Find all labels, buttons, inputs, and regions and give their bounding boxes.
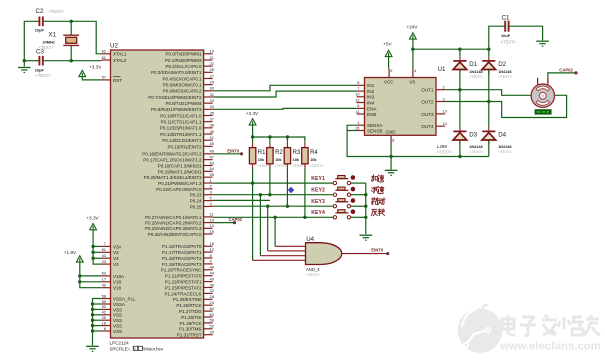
watermark elecfans logo bbox=[458, 305, 503, 353]
wire KEY1 to ground column bbox=[351, 182, 366, 184]
svg-text:R4: R4 bbox=[310, 150, 318, 156]
wire KEY3 row P0.25 bbox=[213, 205, 333, 207]
junctions VSS chain bbox=[91, 302, 94, 305]
junction crystal bottom bbox=[70, 59, 73, 62]
ground for L298 bbox=[385, 169, 398, 171]
svg-text:P0.3/SDA/MAT0.0/EINT1: P0.3/SDA/MAT0.0/EINT1 bbox=[151, 70, 202, 75]
junction R3 KEY3 bbox=[286, 205, 289, 208]
svg-text:P1.21/PIPESTAT0: P1.21/PIPESTAT0 bbox=[165, 274, 202, 279]
power +5V at VCC bbox=[385, 50, 392, 56]
wire R4 vertical bbox=[304, 169, 306, 218]
driver U1 top pins bbox=[384, 69, 416, 85]
svg-text:VSSA: VSSA bbox=[113, 302, 125, 307]
motor active label bbox=[535, 109, 552, 114]
label jiansu (decelerate) bbox=[371, 186, 384, 193]
resistor R4 10k bbox=[302, 137, 325, 169]
svg-text:+3.3V: +3.3V bbox=[86, 216, 99, 221]
svg-text:31: 31 bbox=[210, 92, 214, 97]
svg-text:17: 17 bbox=[102, 277, 106, 282]
wire KEY2 drop to AND input 3 bbox=[259, 195, 261, 256]
power +24V at VS bbox=[410, 33, 417, 39]
svg-text:P0.13/DTR1/MAT1.1: P0.13/DTR1/MAT1.1 bbox=[160, 132, 202, 137]
svg-text:<TEXT>: <TEXT> bbox=[501, 40, 517, 45]
wire OUT2 to motor right bbox=[445, 95, 566, 117]
svg-text:9: 9 bbox=[390, 69, 392, 73]
label zhidong (brake) bbox=[372, 198, 385, 205]
wire KEY3 to ground column bbox=[351, 205, 366, 207]
svg-text:32: 32 bbox=[210, 288, 214, 293]
svg-text:39: 39 bbox=[210, 129, 214, 134]
svg-text:P0.24: P0.24 bbox=[190, 199, 202, 204]
svg-text:P0.4/SCK0/CAP0.1: P0.4/SCK0/CAP0.1 bbox=[162, 76, 202, 81]
svg-text:<TEXT>: <TEXT> bbox=[306, 273, 321, 277]
svg-text:2: 2 bbox=[443, 85, 445, 90]
wire SENSA SENSB tie bbox=[347, 125, 357, 130]
driver U1 left pins bbox=[355, 80, 383, 133]
svg-text:VS: VS bbox=[409, 79, 415, 84]
svg-text:P1.27/TDO: P1.27/TDO bbox=[179, 309, 202, 314]
resistor R3 10k bbox=[284, 137, 307, 169]
svg-text:AND_4: AND_4 bbox=[306, 267, 320, 272]
wire VSS chain bbox=[93, 299, 102, 346]
power +3.3V at V3 rail bbox=[90, 224, 97, 230]
driver U1 L298 body bbox=[365, 78, 437, 136]
ground for C2 C3 bbox=[18, 67, 31, 69]
wire rail to D1 bbox=[459, 49, 461, 56]
svg-text:59: 59 bbox=[102, 299, 106, 304]
mcu U2 left pins bbox=[102, 49, 136, 334]
ground for VSS bbox=[86, 345, 99, 347]
label fanzhuan (reverse) bbox=[371, 209, 384, 216]
svg-text:P0.21/PWM5/CAP1.3: P0.21/PWM5/CAP1.3 bbox=[158, 181, 202, 186]
svg-text:VSS: VSS bbox=[113, 318, 122, 323]
wire resistor rail bbox=[253, 125, 305, 140]
svg-text:7: 7 bbox=[104, 241, 106, 246]
label jiasu (accelerate) bbox=[371, 175, 384, 182]
svg-text:V18: V18 bbox=[113, 286, 122, 291]
junction R2 KEY2 bbox=[268, 193, 271, 196]
svg-text:CAP02: CAP02 bbox=[229, 217, 243, 222]
svg-text:61: 61 bbox=[102, 55, 106, 60]
wire V3 rail bbox=[93, 230, 102, 264]
svg-text:P0.5/MISO/MAT0.1: P0.5/MISO/MAT0.1 bbox=[163, 83, 202, 88]
svg-text:62: 62 bbox=[102, 49, 106, 54]
push button KEY4 bbox=[333, 209, 355, 219]
svg-text:V3: V3 bbox=[113, 250, 119, 255]
wire P0.28 CAP02 stub bbox=[213, 222, 235, 224]
svg-text:VSS: VSS bbox=[113, 313, 122, 318]
wire GND pin down bbox=[390, 144, 392, 169]
svg-text:IN4: IN4 bbox=[367, 100, 375, 105]
junction crystal top bbox=[70, 20, 73, 23]
svg-text:49: 49 bbox=[102, 283, 106, 288]
svg-text:27: 27 bbox=[210, 73, 214, 78]
svg-text:P0.19/MAT1.2/MOSI1: P0.19/MAT1.2/MOSI1 bbox=[158, 169, 202, 174]
svg-text:RST: RST bbox=[113, 78, 122, 83]
diode D2 1N4148 bbox=[482, 56, 513, 78]
svg-text:SRCFILE=..\1: SRCFILE=..\1 bbox=[110, 346, 137, 351]
power +1.8V at V18 rail bbox=[76, 256, 83, 262]
svg-text:P0.11/CTS1/CAP1.1: P0.11/CTS1/CAP1.1 bbox=[161, 120, 202, 125]
svg-text:8: 8 bbox=[392, 139, 394, 143]
svg-text:P0.10/RTS1/CAP1.0: P0.10/RTS1/CAP1.0 bbox=[160, 113, 202, 118]
diode D1 1N4148 bbox=[453, 56, 484, 78]
wire KEY4 to ground column bbox=[351, 216, 366, 218]
junction C3-ground vertical bbox=[23, 59, 26, 62]
svg-text:<TEXT>: <TEXT> bbox=[498, 150, 513, 154]
svg-text:P0.18/CAP1.3/MISO1: P0.18/CAP1.3/MISO1 bbox=[158, 163, 202, 168]
svg-text:10uF: 10uF bbox=[501, 33, 511, 38]
svg-text:V3: V3 bbox=[113, 262, 119, 267]
wire OUT1 to motor left bbox=[445, 90, 531, 96]
junction rail D1 bbox=[458, 48, 461, 51]
diode D4 1N4148 bbox=[482, 127, 513, 154]
svg-text:www.elecfans.com: www.elecfans.com bbox=[499, 341, 601, 353]
svg-text:P0.2/SCL/CAP0.0: P0.2/SCL/CAP0.0 bbox=[165, 64, 202, 69]
svg-text:P0.17/CAP1.2/SCK1/MAT1.2: P0.17/CAP1.2/SCK1/MAT1.2 bbox=[143, 158, 202, 163]
wire C1 right to ground bbox=[509, 26, 543, 40]
watermark chinese characters bbox=[502, 315, 600, 336]
svg-text:21: 21 bbox=[210, 55, 214, 60]
resistor R2 10k bbox=[267, 137, 290, 169]
svg-text:P0.29/AIN2/CAP0.3/MAT0.3: P0.29/AIN2/CAP0.3/MAT0.3 bbox=[145, 226, 202, 231]
svg-text:P0.0/TxD0/PWM1: P0.0/TxD0/PWM1 bbox=[165, 52, 202, 57]
svg-text:U4: U4 bbox=[306, 236, 314, 243]
wire SENS to bottom rail bbox=[347, 131, 489, 157]
wire +24V rail bbox=[413, 39, 489, 49]
svg-text:X1: X1 bbox=[49, 32, 57, 39]
svg-text:10k: 10k bbox=[258, 157, 265, 162]
svg-text:57: 57 bbox=[102, 75, 106, 80]
svg-text:P0.6/MOSI/CAP0.2: P0.6/MOSI/CAP0.2 bbox=[163, 89, 202, 94]
junctions resistor rail bbox=[251, 135, 254, 138]
svg-text:P0.22/CAP0.0/MAT0.0: P0.22/CAP0.0/MAT0.0 bbox=[156, 187, 202, 192]
svg-text:1N4148: 1N4148 bbox=[469, 70, 482, 74]
svg-text:V3A: V3A bbox=[113, 244, 122, 249]
driver U1 right pins bbox=[421, 85, 447, 130]
svg-text:P0.30/AIN3/EINT3/CAP0.0: P0.30/AIN3/EINT3/CAP0.0 bbox=[148, 232, 202, 237]
svg-text:<TEXT>: <TEXT> bbox=[310, 164, 325, 168]
svg-text:+24V: +24V bbox=[406, 25, 418, 30]
node CAP02 right bbox=[574, 71, 577, 74]
junctions key ground column bbox=[364, 193, 367, 196]
svg-text:D2: D2 bbox=[498, 61, 506, 68]
svg-text:<TEXT>: <TEXT> bbox=[469, 75, 484, 79]
svg-text:10pF: 10pF bbox=[35, 68, 45, 73]
svg-text:<TEXT>: <TEXT> bbox=[49, 9, 65, 14]
svg-text:KEY4: KEY4 bbox=[311, 210, 325, 216]
and gate U4 AND_4 bbox=[306, 236, 342, 277]
junction rail D2 C1 bbox=[487, 48, 490, 51]
svg-text:V18: V18 bbox=[113, 280, 122, 285]
svg-text:12: 12 bbox=[355, 97, 359, 102]
diode D3 1N4148 bbox=[453, 127, 484, 154]
svg-text:+1.8V: +1.8V bbox=[64, 250, 77, 255]
svg-text:KEY1: KEY1 bbox=[311, 176, 325, 182]
wire V18 rail bbox=[80, 262, 102, 287]
wire C2 left to ground bbox=[24, 21, 38, 66]
svg-text:<TEXT>: <TEXT> bbox=[36, 73, 52, 78]
svg-text:24MHz: 24MHz bbox=[43, 39, 55, 44]
svg-text:P1.20/TRACESYNC: P1.20/TRACESYNC bbox=[161, 268, 203, 273]
wire C2 top rail to XTAL1 bbox=[44, 21, 102, 54]
svg-text:LPC2124: LPC2124 bbox=[110, 341, 130, 346]
junction bottom rail GND bbox=[389, 155, 392, 158]
svg-text:CAP02: CAP02 bbox=[559, 67, 573, 72]
svg-text:P1.19/TRACEPKT3: P1.19/TRACEPKT3 bbox=[162, 262, 202, 267]
junction OUT2 D2 bbox=[487, 100, 490, 103]
svg-text:P1.18/TRACEPKT2: P1.18/TRACEPKT2 bbox=[162, 256, 202, 261]
svg-text:+3.3V: +3.3V bbox=[246, 111, 259, 116]
svg-text:1: 1 bbox=[210, 178, 212, 183]
svg-text:VSS: VSS bbox=[113, 324, 122, 329]
svg-text:P0.1/RxD0/PWM3: P0.1/RxD0/PWM3 bbox=[165, 58, 202, 63]
svg-text:ENB: ENB bbox=[367, 112, 376, 117]
node EINT0 left bbox=[240, 152, 243, 155]
wire U4 output EINT0 bbox=[342, 253, 388, 255]
svg-text:P0.15/RI1/EINT2: P0.15/RI1/EINT2 bbox=[167, 144, 202, 149]
svg-text:R3: R3 bbox=[293, 150, 301, 156]
wire KEY4 row P0.27 bbox=[213, 216, 333, 218]
wire R2 vertical bbox=[269, 169, 271, 195]
junction bottom rail D3 bbox=[458, 155, 461, 158]
svg-text:P1.23/PIPESTAT2: P1.23/PIPESTAT2 bbox=[165, 285, 202, 290]
svg-text:P0.27/AIN0/CAP0.1/MAT0.1: P0.27/AIN0/CAP0.1/MAT0.1 bbox=[145, 215, 202, 220]
junction R4 KEY4 bbox=[303, 216, 306, 219]
wire D4 bottom bbox=[488, 140, 490, 157]
wire KEY2 row P0.23 bbox=[213, 194, 333, 196]
capacitor C1 10uF bbox=[501, 15, 517, 45]
wire P0.16 EINT0 stub bbox=[213, 153, 242, 155]
svg-text:P0.12/DSR1/MAT1.0: P0.12/DSR1/MAT1.0 bbox=[160, 126, 202, 131]
svg-text:V3: V3 bbox=[113, 256, 119, 261]
wire crystal vertical bottom bbox=[70, 45, 72, 60]
origin marker blue diamond bbox=[288, 187, 294, 194]
wire C1 left bbox=[489, 26, 505, 49]
wire KEY4 drop to AND input 1 bbox=[274, 217, 276, 246]
node EINT0 output bbox=[386, 252, 389, 255]
wire motor terminal to CAP02 bbox=[548, 73, 576, 78]
svg-text:VSS: VSS bbox=[113, 329, 122, 334]
svg-text:10k: 10k bbox=[310, 157, 317, 162]
mcu U2 LPC2124 body bbox=[111, 50, 204, 338]
svg-text:1N4148: 1N4148 bbox=[498, 145, 511, 149]
svg-text:P0.20/MAT1.3/SSEL1/EINT3: P0.20/MAT1.3/SSEL1/EINT3 bbox=[144, 175, 202, 180]
svg-text:52: 52 bbox=[210, 324, 214, 329]
svg-text:SENSB: SENSB bbox=[367, 128, 383, 133]
svg-text:R1: R1 bbox=[258, 150, 266, 156]
svg-text:KEY2: KEY2 bbox=[311, 188, 325, 194]
wire D2 to D4 bbox=[488, 70, 490, 127]
svg-text:P1.26/RTCK: P1.26/RTCK bbox=[176, 303, 201, 308]
svg-text:37: 37 bbox=[210, 116, 214, 121]
svg-text:D3: D3 bbox=[469, 132, 477, 139]
svg-text:<TEXT>: <TEXT> bbox=[469, 150, 484, 154]
svg-text:U1: U1 bbox=[438, 66, 446, 73]
svg-text:V18A: V18A bbox=[113, 274, 124, 279]
resistor R1 10k bbox=[249, 137, 272, 169]
svg-text:IN2: IN2 bbox=[367, 89, 375, 94]
wire R1 vertical to AND input 4 bbox=[252, 169, 254, 261]
svg-text:9: 9 bbox=[210, 201, 212, 206]
wire R3 vertical bbox=[286, 169, 288, 207]
push button KEY2 bbox=[333, 187, 355, 197]
svg-text:11: 11 bbox=[355, 109, 359, 114]
svg-text:OUT1: OUT1 bbox=[421, 88, 434, 93]
svg-text:U2: U2 bbox=[110, 43, 118, 50]
push button KEY3 bbox=[333, 198, 355, 208]
junctions V18 rail bbox=[78, 274, 81, 277]
wire KEY1 row P0.21 bbox=[213, 182, 333, 184]
svg-text:P1.22/PIPESTAT1: P1.22/PIPESTAT1 bbox=[165, 280, 202, 285]
svg-text:11: 11 bbox=[210, 212, 214, 217]
svg-text:+5V: +5V bbox=[383, 41, 392, 46]
svg-text:29: 29 bbox=[210, 79, 214, 84]
wire +5V to VCC bbox=[388, 57, 390, 69]
svg-text:OUT2: OUT2 bbox=[421, 99, 434, 104]
svg-text:P1.25/EXTIN0: P1.25/EXTIN0 bbox=[173, 297, 202, 302]
power +3.3V at resistor rail bbox=[249, 119, 256, 125]
svg-text:2: 2 bbox=[210, 184, 212, 189]
crystal X1 24MHz bbox=[39, 32, 80, 50]
svg-text:VSS: VSS bbox=[113, 307, 122, 312]
wire D3 bottom bbox=[459, 140, 461, 157]
svg-text:P0.7/SSEL0/PWM2/EINT2: P0.7/SSEL0/PWM2/EINT2 bbox=[148, 95, 202, 100]
wire P0.9 to ENA bbox=[213, 107, 357, 110]
wire KEY2 to ground column bbox=[351, 194, 366, 196]
svg-text:12: 12 bbox=[210, 247, 214, 252]
wire crystal vertical top bbox=[70, 21, 72, 35]
svg-text:ENA: ENA bbox=[367, 106, 377, 111]
ground for C1 bbox=[536, 40, 549, 42]
svg-text:P0.25: P0.25 bbox=[190, 204, 202, 209]
svg-text:P0.14/DCD1/EINT1: P0.14/DCD1/EINT1 bbox=[162, 138, 202, 143]
wire keys to ground bbox=[365, 183, 367, 234]
svg-text:P1.24/TRACECLK: P1.24/TRACECLK bbox=[164, 291, 201, 296]
mcu U2 right pins bbox=[142, 49, 214, 338]
wire P0.24 stub bbox=[213, 199, 270, 201]
svg-text:P1.16/TRACEPKT0: P1.16/TRACEPKT0 bbox=[162, 244, 202, 249]
svg-text:XTAL2: XTAL2 bbox=[113, 58, 127, 63]
motor DC bbox=[531, 78, 554, 108]
svg-text:42: 42 bbox=[102, 310, 106, 315]
svg-text:L298: L298 bbox=[437, 144, 447, 149]
svg-text:41: 41 bbox=[210, 135, 214, 140]
push button KEY1 bbox=[333, 175, 355, 185]
junctions V3 rail bbox=[91, 245, 94, 248]
svg-text:\Motor.hex: \Motor.hex bbox=[143, 346, 164, 351]
svg-text:<TEXT>: <TEXT> bbox=[498, 75, 513, 79]
svg-text:10pF: 10pF bbox=[35, 28, 45, 33]
driver U1 bottom pin GND bbox=[385, 129, 396, 144]
capacitor C3 bbox=[35, 49, 52, 79]
svg-text:10k: 10k bbox=[293, 157, 300, 162]
svg-text:P0.28/AIN1/CAP0.2/MAT0.2: P0.28/AIN1/CAP0.2/MAT0.2 bbox=[145, 221, 202, 226]
svg-text:D4: D4 bbox=[498, 132, 506, 139]
svg-text:P0.16/EINT0/MAT0.2/CAP0.2: P0.16/EINT0/MAT0.2/CAP0.2 bbox=[142, 152, 202, 157]
svg-text:51: 51 bbox=[102, 247, 106, 252]
svg-text:22: 22 bbox=[210, 61, 214, 66]
svg-text:EINT0: EINT0 bbox=[227, 149, 240, 154]
power +3.3V at RST bbox=[79, 70, 86, 76]
junction R1 KEY1 bbox=[251, 181, 254, 184]
svg-text:P1.28/TDI: P1.28/TDI bbox=[181, 315, 201, 320]
svg-text:19: 19 bbox=[210, 49, 214, 54]
junction +24V at VS bbox=[411, 48, 414, 51]
wire KEY3 drop to AND input 2 bbox=[267, 206, 269, 251]
ground for keys bbox=[360, 234, 373, 236]
svg-text:C2: C2 bbox=[36, 8, 44, 15]
wire P0.7 to IN2 bbox=[213, 91, 357, 97]
svg-text:P1.29/TCK: P1.29/TCK bbox=[179, 321, 201, 326]
svg-text:OUT4: OUT4 bbox=[421, 124, 434, 129]
svg-text:OUT3: OUT3 bbox=[421, 112, 434, 117]
wire C3 row to XTAL2 bbox=[44, 60, 102, 62]
svg-text:R2: R2 bbox=[275, 150, 283, 156]
wire D2 C1 vertical bbox=[488, 49, 490, 56]
svg-text:P0.23: P0.23 bbox=[190, 193, 202, 198]
svg-text:D1: D1 bbox=[469, 61, 477, 68]
svg-text:IN1: IN1 bbox=[367, 83, 375, 88]
svg-text:KEY3: KEY3 bbox=[311, 199, 325, 205]
svg-text:P1.30/TMS: P1.30/TMS bbox=[179, 327, 202, 332]
wire +3.3V to RST bbox=[82, 77, 101, 80]
svg-text:VCC: VCC bbox=[384, 79, 394, 84]
svg-text:7: 7 bbox=[357, 86, 359, 91]
svg-text:IN3: IN3 bbox=[367, 95, 375, 100]
svg-text:P1.31/TRST: P1.31/TRST bbox=[177, 333, 202, 338]
svg-text:4: 4 bbox=[414, 69, 416, 73]
svg-text:GND: GND bbox=[385, 129, 396, 134]
svg-text:VSSA_PLL: VSSA_PLL bbox=[113, 296, 136, 301]
svg-text:1N4148: 1N4148 bbox=[498, 70, 511, 74]
svg-text:C1: C1 bbox=[502, 15, 510, 22]
wire P0.6 to IN1 bbox=[213, 85, 357, 91]
svg-text:SENSA: SENSA bbox=[367, 123, 384, 128]
wire VS vertical bbox=[412, 49, 414, 68]
svg-text:P0.8/TxD1/PWM4: P0.8/TxD1/PWM4 bbox=[165, 101, 202, 106]
wire D1 to D3 bbox=[459, 70, 461, 127]
svg-text:+3.3V: +3.3V bbox=[89, 65, 102, 70]
svg-text:<TEXT>: <TEXT> bbox=[39, 45, 55, 50]
svg-text:10k: 10k bbox=[275, 157, 282, 162]
svg-text:47: 47 bbox=[210, 154, 214, 159]
svg-text:1: 1 bbox=[357, 120, 359, 125]
svg-text:P1.17/TRACEPKT1: P1.17/TRACEPKT1 bbox=[162, 250, 202, 255]
junction OUT1 D1 bbox=[458, 88, 461, 91]
capacitor C2 bbox=[35, 8, 65, 33]
svg-text:EINT0: EINT0 bbox=[371, 247, 384, 252]
node CAP02 left bbox=[233, 221, 236, 224]
svg-text:XTAL1: XTAL1 bbox=[113, 52, 127, 57]
svg-text:1N4148: 1N4148 bbox=[469, 145, 482, 149]
svg-text:P0.9/RxD1/PWM6/EINT3: P0.9/RxD1/PWM6/EINT3 bbox=[151, 107, 202, 112]
svg-text:<TEXT>: <TEXT> bbox=[437, 150, 453, 155]
